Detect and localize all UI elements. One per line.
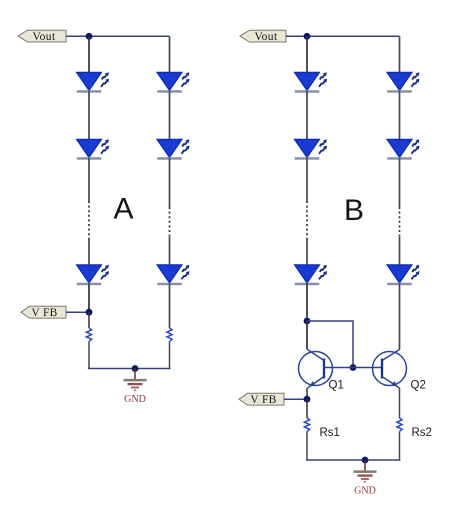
wire (dashed continuation) A1 — [88, 201, 90, 239]
wire: Rs2 to bottom rail — [399, 432, 401, 461]
wire: V FB to node (A) — [66, 311, 89, 313]
wire: Vout top rail B — [286, 35, 400, 37]
LED B1-3 — [295, 265, 327, 285]
wire: A1 between LED1-LED2 — [88, 91, 90, 140]
wire: B1 below LED2 — [306, 158, 308, 201]
LED A1-2 — [77, 139, 109, 159]
wire: resistor A2 to bottom rail — [169, 342, 171, 370]
LED A2-3 — [157, 265, 189, 285]
wire: B1 between LED1-LED2 — [306, 91, 308, 140]
LED A2-1 — [157, 72, 189, 92]
svg-text:Q1: Q1 — [329, 380, 344, 392]
wire: bottom rail A — [88, 368, 170, 370]
wire: A2 LED3 to resistor — [169, 283, 171, 328]
junction dot: ground node B — [362, 457, 369, 464]
svg-text:Vout: Vout — [32, 31, 56, 43]
svg-text:A: A — [113, 193, 133, 226]
wire (dashed continuation) A2 — [169, 207, 171, 237]
wire: Vout top rail A — [66, 35, 170, 37]
LED B1-1 — [295, 72, 327, 92]
resistor (A right ballast) — [167, 328, 172, 342]
resistor Rs2 — [397, 418, 402, 432]
LED A1-3 — [77, 265, 109, 285]
junction dot: ground node A — [132, 365, 139, 372]
wire: A1 LED3 to VFB node — [88, 283, 90, 312]
wire: collector-to-base tie — [307, 321, 353, 368]
ground GND (B) — [354, 460, 377, 497]
wire: Q1 emitter to VFB node — [306, 388, 308, 399]
LED B1-2 — [295, 139, 327, 159]
wire: node to resistor A1 — [88, 312, 90, 328]
LED A2-2 — [157, 139, 189, 159]
ground GND (A) — [124, 369, 147, 406]
wire: B2 top segment — [399, 36, 401, 73]
net flag Vout (A) — [18, 30, 66, 43]
wire: B2 LED3 to Q2 collector — [399, 283, 401, 349]
LED A1-1 — [77, 72, 109, 92]
wire: A2 above LED3 — [169, 237, 171, 265]
transistor Q1 — [299, 350, 333, 389]
wire: B2 below LED2 — [399, 158, 401, 207]
net flag V FB (A) — [21, 306, 66, 319]
junction dot: Vout / string B1 — [304, 33, 311, 40]
svg-text:Vout: Vout — [254, 31, 278, 43]
wire: A1 below LED2 — [88, 158, 90, 201]
wire: B1 above LED3 — [306, 239, 308, 265]
svg-text:V FB: V FB — [250, 394, 276, 406]
svg-text:B: B — [344, 194, 364, 227]
resistor (A left ballast) — [86, 328, 91, 342]
wire: Q2 emitter to Rs2 — [399, 388, 401, 418]
wire: B2 between LED1-LED2 — [399, 91, 401, 140]
junction dot: base tie node — [350, 364, 357, 371]
wire: node to resistor Rs1 — [306, 399, 308, 418]
net flag Vout (B) — [240, 30, 286, 43]
svg-text:Q2: Q2 — [411, 380, 426, 392]
wire (dashed continuation) B1 — [306, 201, 308, 239]
LED B2-2 — [387, 139, 419, 159]
LED B2-1 — [387, 72, 419, 92]
wire (dashed continuation) B2 — [399, 207, 401, 237]
junction dot: V FB node (B) — [304, 396, 311, 403]
resistor Rs1 — [304, 418, 309, 432]
wire: A2 top segment — [169, 36, 171, 73]
wire: mirror node to Q1 collector — [306, 321, 308, 350]
wire: V FB to node (B) — [284, 398, 307, 400]
wire: bottom rail B — [306, 459, 400, 461]
junction dot: mirror node (B) — [304, 318, 311, 325]
wire: resistor A1 to bottom rail — [88, 342, 90, 370]
wire: A1 top segment — [88, 36, 90, 73]
net flag V FB (B) — [239, 393, 284, 406]
wire: A1 above LED3 — [88, 239, 90, 265]
wire: A2 below LED2 — [169, 158, 171, 207]
wire: base rail Q1-Q2 — [324, 367, 382, 369]
junction dot: Vout / string A1 — [86, 33, 93, 40]
wire: B2 above LED3 — [399, 237, 401, 265]
LED B2-3 — [387, 265, 419, 285]
wire: Rs1 to bottom rail — [306, 432, 308, 461]
svg-text:Rs2: Rs2 — [412, 427, 432, 439]
transistor Q2 — [373, 350, 407, 389]
svg-text:Rs1: Rs1 — [320, 427, 340, 439]
wire: A2 between LED1-LED2 — [169, 91, 171, 140]
svg-text:V FB: V FB — [31, 307, 57, 319]
junction dot: V FB node (A) — [86, 309, 93, 316]
wire: B1 LED3 to mirror node — [306, 283, 308, 321]
wire: B1 top segment — [306, 36, 308, 73]
